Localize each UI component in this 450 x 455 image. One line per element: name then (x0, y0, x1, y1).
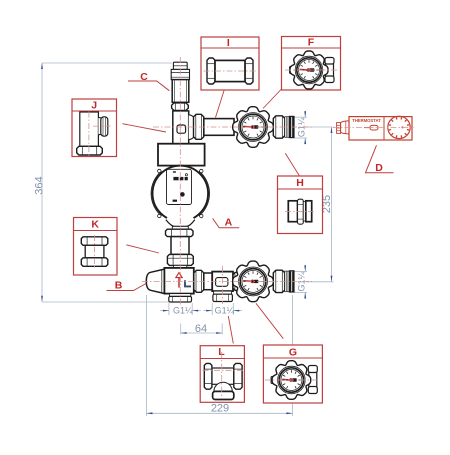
svg-text:G1¼: G1¼ (173, 305, 193, 315)
svg-text:B: B (115, 280, 123, 292)
svg-text:C: C (140, 71, 148, 83)
svg-text:J: J (91, 99, 97, 111)
svg-text:H: H (296, 177, 304, 189)
svg-text:364: 364 (33, 176, 45, 194)
svg-text:K: K (91, 218, 99, 230)
svg-text:THERMOSTAT: THERMOSTAT (352, 118, 381, 123)
svg-text:G1¼: G1¼ (215, 305, 235, 315)
svg-text:G: G (289, 346, 297, 358)
svg-text:I: I (227, 37, 230, 49)
svg-text:64: 64 (195, 323, 207, 335)
svg-text:A: A (225, 217, 233, 229)
svg-text:229: 229 (211, 403, 229, 415)
svg-text:F: F (308, 37, 315, 49)
svg-text:D: D (375, 162, 383, 174)
